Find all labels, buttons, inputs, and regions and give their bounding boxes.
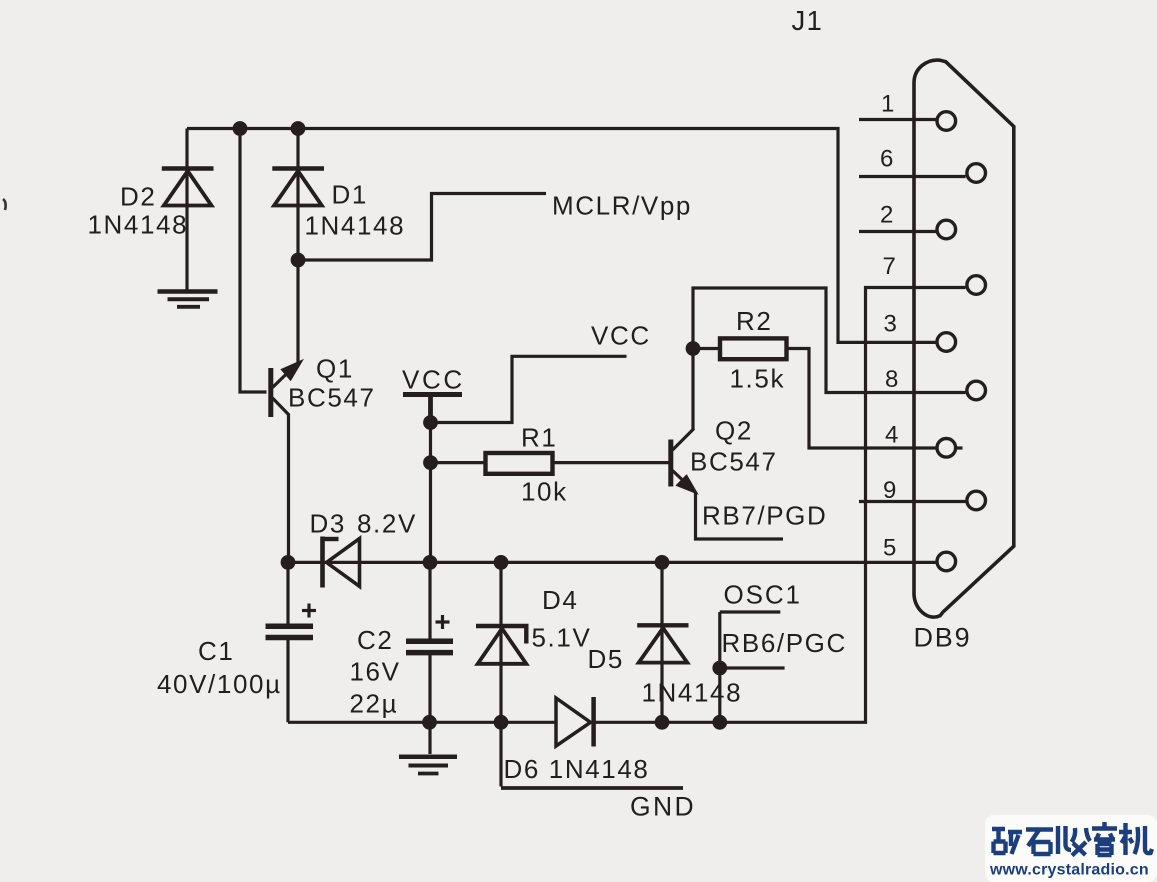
svg-text:8.2V: 8.2V <box>357 509 417 539</box>
connector J1 DB9 shell outline <box>914 60 1014 617</box>
node junction dot D4 top <box>494 555 509 570</box>
label D1 value 1N4148 <box>305 211 406 241</box>
svg-text:C1: C1 <box>198 636 234 666</box>
svg-text:7: 7 <box>883 253 896 280</box>
pin 9 circle <box>967 491 986 510</box>
wire GND flag <box>501 722 683 788</box>
pin number 3 <box>884 311 897 338</box>
capacitor C1 40V/100u <box>266 604 317 638</box>
wire MCLR/Vpp net <box>298 194 546 261</box>
svg-text:1.5k: 1.5k <box>730 364 786 394</box>
capacitor C2 16V 22u <box>406 615 453 653</box>
svg-text:1N4148: 1N4148 <box>88 210 189 240</box>
svg-text:1N4148: 1N4148 <box>642 678 743 708</box>
svg-text:D1: D1 <box>332 180 368 210</box>
wire node to R2 <box>693 347 720 350</box>
wire D4 lead <box>499 562 502 722</box>
label C2 value 22u <box>350 689 399 719</box>
zener diode D3 8.2V symbol <box>323 537 360 588</box>
label Q1 <box>316 354 354 384</box>
pin number 5 <box>883 535 896 562</box>
pin 4 circle <box>937 439 963 458</box>
svg-text:9: 9 <box>883 477 896 504</box>
svg-text:22µ: 22µ <box>350 689 399 719</box>
node junction dot C2 bottom on rail <box>422 715 437 730</box>
svg-text:D5: D5 <box>588 644 624 674</box>
svg-text:D2: D2 <box>120 182 156 212</box>
wire bottom rail right segment up to DB9 pin 7 row <box>594 288 966 723</box>
pin number 1 <box>881 91 894 118</box>
svg-text:D6 1N4148: D6 1N4148 <box>504 754 650 784</box>
wire bottom rail left segment <box>288 721 556 724</box>
svg-text:BC547: BC547 <box>690 447 778 477</box>
pin number 6 <box>880 146 893 173</box>
resistor R2 1.5k <box>720 338 787 359</box>
svg-text:DB9: DB9 <box>914 623 972 653</box>
wire top rail from D2 to DB9 corner then down to pin 3 row <box>187 129 936 343</box>
node junction dot OSC1 branch on rail <box>712 715 727 730</box>
diode D6 1N4148 symbol <box>556 697 594 747</box>
wire Q2 collector node up and over to DB9 pin 8 row <box>693 288 966 393</box>
pin 2 lead wire <box>859 230 936 233</box>
node junction dot top rail / Q1 base branch <box>233 121 248 136</box>
wire VCC net to right label <box>431 356 627 422</box>
label D4 <box>542 585 578 615</box>
watermark logo chinese characters <box>992 822 1152 856</box>
svg-text:D4: D4 <box>542 585 578 615</box>
svg-text:RB7/PGD: RB7/PGD <box>702 501 827 531</box>
svg-text:40V/100µ: 40V/100µ <box>157 669 282 699</box>
svg-text:www.crystalradio.cn: www.crystalradio.cn <box>989 862 1149 879</box>
wire OSC1 flag vertical and top bracket <box>720 612 781 722</box>
wire R2 to DB9 pin 4 row <box>787 349 937 449</box>
label net OSC1 <box>724 580 802 610</box>
node junction dot top rail / D1 branch <box>291 121 306 136</box>
zener diode D4 5.1V symbol <box>476 626 529 664</box>
svg-text:1N4148: 1N4148 <box>305 211 406 241</box>
pin 2 circle <box>937 220 956 239</box>
pin number 9 <box>883 477 896 504</box>
label D5 <box>588 644 624 674</box>
node junction dot R1 branch <box>423 455 438 470</box>
node junction dot VCC branch <box>423 415 438 430</box>
wire R1 to Q2 base <box>553 461 669 464</box>
node junction dot R2 / Q2 collector <box>686 341 701 356</box>
pin 5 circle <box>937 552 956 571</box>
wire D5 lead <box>660 562 663 722</box>
wire VCC to R1 <box>431 461 486 464</box>
pin 9 lead wire <box>859 500 966 503</box>
pin number 7 <box>883 253 896 280</box>
diode D2 1N4148 symbol <box>162 169 214 206</box>
label R2 <box>736 306 772 336</box>
label net GND <box>630 792 696 822</box>
svg-text:OSC1: OSC1 <box>724 580 802 610</box>
wire Q1 base branch: down from top rail then right to Q1 base <box>240 129 267 393</box>
wire C1 top lead <box>286 562 289 623</box>
label VCC left <box>402 365 465 395</box>
watermark logo background <box>985 815 1157 882</box>
label C2 <box>357 625 393 655</box>
pin number 2 <box>880 202 893 229</box>
svg-text:VCC: VCC <box>591 321 651 351</box>
svg-text:3: 3 <box>884 311 897 338</box>
label D2 value 1N4148 <box>88 210 189 240</box>
node junction dot D4 bottom / GND branch <box>494 715 509 730</box>
wire D3 row rail to DB9 pin 5 <box>288 561 936 564</box>
label Q1 value BC547 <box>288 383 376 413</box>
pin 1 lead wire <box>859 118 936 121</box>
wire D2 top lead <box>185 129 188 290</box>
wire Q1 collector vertical <box>296 260 299 363</box>
label D3 value 8.2V <box>357 509 417 539</box>
svg-text:C2: C2 <box>357 625 393 655</box>
wire C1 bottom lead to rail <box>286 640 289 722</box>
label Q2 value BC547 <box>690 447 778 477</box>
resistor R1 10k <box>486 453 553 474</box>
label net RB6/PGC <box>722 628 847 658</box>
svg-text:VCC: VCC <box>402 365 465 395</box>
pin 6 circle <box>967 164 986 183</box>
label D3 <box>310 509 346 539</box>
svg-text:8: 8 <box>885 366 898 393</box>
label R1 <box>521 423 557 453</box>
svg-text:10k: 10k <box>521 477 568 507</box>
svg-text:4: 4 <box>885 422 898 449</box>
svg-text:BC547: BC547 <box>288 383 376 413</box>
diode D5 1N4148 symbol <box>637 625 688 662</box>
label VCC right <box>591 321 651 351</box>
svg-text:J1: J1 <box>792 5 823 36</box>
node junction dot D5 bottom on rail <box>655 715 670 730</box>
label D5 value 1N4148 <box>642 678 743 708</box>
wire Q2 emitter to RB7/PGD flag <box>696 492 784 540</box>
label Q2 <box>715 416 753 446</box>
node junction dot RB6/PGC underline <box>712 661 727 676</box>
label C1 <box>198 636 234 666</box>
svg-text:R2: R2 <box>736 306 772 336</box>
label C2 value 16V <box>350 657 401 687</box>
label C1 value 40V/100u <box>157 669 282 699</box>
label D2 <box>120 182 156 212</box>
pin 8 circle <box>967 381 986 400</box>
svg-text:GND: GND <box>630 792 696 822</box>
svg-text:RB6/PGC: RB6/PGC <box>722 628 847 658</box>
label R1 value 10k <box>521 477 568 507</box>
svg-text:5: 5 <box>883 535 896 562</box>
tiny stray mark left edge <box>3 199 6 210</box>
label D4 value 5.1V <box>532 623 592 653</box>
svg-text:5.1V: 5.1V <box>532 623 592 653</box>
label R2 value 1.5k <box>730 364 786 394</box>
svg-text:MCLR/Vpp: MCLR/Vpp <box>552 191 692 221</box>
transistor Q2 BC547 <box>671 429 696 493</box>
svg-text:D3: D3 <box>310 509 346 539</box>
node junction dot C2 top <box>423 555 438 570</box>
svg-text:6: 6 <box>880 146 893 173</box>
diode D1 1N4148 symbol <box>272 169 324 206</box>
node junction dot D1 / MCLR / Q1 collector <box>291 253 306 268</box>
pin number 4 <box>885 422 898 449</box>
power symbol VCC left <box>403 395 462 563</box>
pin 7 circle <box>967 276 986 295</box>
ground symbol under D2 <box>158 292 218 307</box>
ground symbol under C2 <box>399 757 457 774</box>
pin 6 lead wire <box>859 175 966 178</box>
pin 1 circle <box>937 112 956 131</box>
svg-text:Q1: Q1 <box>316 354 354 384</box>
label D1 <box>332 180 368 210</box>
wire Q2 collector vertical to R2 node <box>691 349 694 430</box>
label J1 <box>792 5 823 36</box>
label D6 value D6 1N4148 <box>504 754 650 784</box>
label DB9 <box>914 623 972 653</box>
transistor Q1 BC547 <box>271 362 301 563</box>
wire D1 top lead <box>296 129 299 261</box>
svg-text:16V: 16V <box>350 657 401 687</box>
label net RB7/PGD <box>702 501 827 531</box>
pin 3 circle <box>937 333 956 352</box>
node junction dot D5 top <box>655 555 670 570</box>
svg-text:R1: R1 <box>521 423 557 453</box>
wire RB6/PGC underline <box>720 666 785 669</box>
watermark url www.crystalradio.cn <box>989 862 1149 879</box>
svg-text:1: 1 <box>881 91 894 118</box>
wire C2 leads <box>428 562 431 754</box>
pin number 8 <box>885 366 898 393</box>
label net MCLR/Vpp <box>552 191 692 221</box>
node junction dot D3 row / C1 / Q1 emitter <box>281 555 296 570</box>
svg-text:2: 2 <box>880 202 893 229</box>
svg-text:Q2: Q2 <box>715 416 753 446</box>
